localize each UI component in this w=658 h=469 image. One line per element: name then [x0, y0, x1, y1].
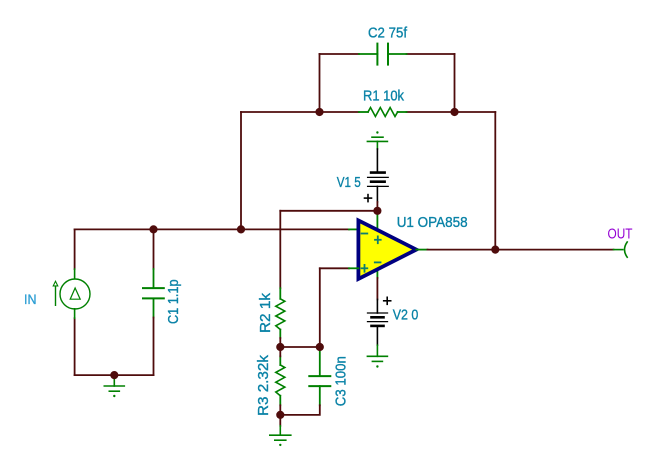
wire: + input vertical down to divider — [319, 268, 321, 347]
node: R1/C2 left — [315, 108, 323, 116]
wire: R3 bottom lead — [279, 405, 281, 415]
wire: output line — [428, 249, 614, 251]
resistor R2 — [276, 288, 285, 338]
resistor R3 — [276, 356, 285, 405]
capacitor C2 — [359, 44, 407, 65]
node: V+ supply — [373, 207, 381, 215]
ground (inverted, above V1) — [367, 131, 387, 149]
wire: C2 loop right vertical — [454, 54, 456, 112]
svg-text:C1 1.1p: C1 1.1p — [165, 279, 182, 324]
ground below input section — [104, 375, 124, 397]
svg-text:C2 75f: C2 75f — [368, 25, 408, 42]
wire: feedback left vertical — [240, 112, 242, 229]
wire: + input horizontal — [320, 267, 349, 269]
op-amp input/supply marks — [362, 234, 381, 272]
wire: main input line — [75, 228, 349, 230]
node: feedback tap on input line — [237, 225, 245, 233]
node: C1 tap — [149, 225, 157, 233]
wire: divider junction horizontal — [280, 346, 320, 348]
svg-text:V1 5: V1 5 — [337, 174, 361, 191]
battery V2 — [368, 297, 391, 345]
svg-text:R2 1k: R2 1k — [257, 292, 274, 333]
wire: V+ node horizontal — [280, 210, 377, 212]
resistor R1 — [359, 108, 407, 117]
node: input ground — [110, 371, 118, 379]
non-inverting input green stub — [349, 267, 358, 269]
current source I1 — [53, 269, 90, 318]
wire: R2 bottom to junction — [279, 338, 281, 347]
ground below R3 — [270, 426, 291, 446]
op-amp V- pin — [376, 266, 378, 278]
svg-text:R1 10k: R1 10k — [363, 87, 404, 104]
node: R1/C2 right — [450, 108, 458, 116]
svg-text:C3 100n: C3 100n — [333, 356, 350, 406]
svg-text:OUT: OUT — [608, 225, 633, 242]
capacitor C3 — [309, 347, 330, 405]
wire: R1 row horizontal — [241, 111, 359, 113]
wire: down to R2 — [279, 211, 281, 288]
current source IN leads — [74, 229, 76, 269]
wire: V1 to V+ node — [376, 202, 378, 211]
node: output feedback — [491, 246, 499, 254]
svg-text:V2 0: V2 0 — [393, 307, 419, 324]
op-amp output stub — [416, 249, 427, 251]
wire: V- pin to V2 — [376, 278, 378, 300]
wire: bottom of input section — [75, 374, 154, 376]
ground below V2 — [367, 345, 387, 367]
node: divider mid left — [276, 343, 284, 351]
op-amp U1 triangle — [358, 220, 416, 279]
wire: inverting input green stub — [349, 228, 358, 230]
capacitor C1 — [153, 229, 155, 269]
wire: C3 bottom elbow — [280, 405, 320, 415]
port OUT — [614, 242, 628, 257]
node: R3 bottom — [276, 411, 284, 419]
wire: R3 junction down to ground — [279, 415, 281, 426]
svg-text:U1 OPA858: U1 OPA858 — [397, 214, 468, 231]
wire: output feedback vertical — [494, 112, 496, 250]
battery V1 — [365, 149, 389, 202]
wire: C2 loop left vertical — [319, 54, 321, 112]
svg-text:IN: IN — [24, 291, 37, 307]
svg-text:R3 2.32k: R3 2.32k — [255, 355, 272, 416]
op-amp V+ pin — [376, 211, 378, 232]
wire: C2 top horizontal — [320, 53, 360, 55]
node: divider mid right — [316, 343, 324, 351]
wire: R3 top lead — [279, 347, 281, 356]
